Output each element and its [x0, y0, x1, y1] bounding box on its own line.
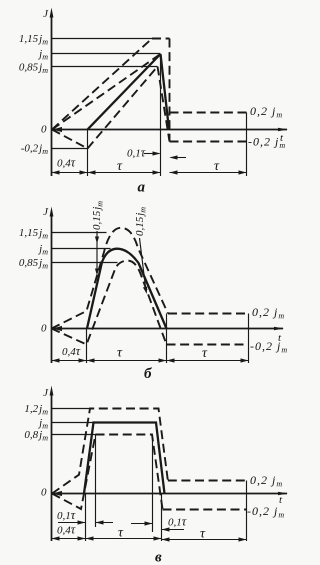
level line jm plot a — [52, 53, 161, 55]
dashed nominal-start ramp plot a — [52, 54, 161, 130]
svg-text:0,1τ: 0,1τ — [168, 515, 187, 529]
extension vertical 0,4tau plot b — [86, 329, 88, 364]
svg-text:0,4τ: 0,4τ — [57, 523, 76, 537]
lower dashed tolerance ramp plot a — [88, 67, 158, 149]
extension vertical 0,4tau plot v — [85, 494, 87, 542]
svg-text:0,2 jm: 0,2 jm — [252, 305, 285, 321]
svg-text:0,4τ: 0,4τ — [62, 344, 81, 358]
inner dashed pulse plot v — [52, 435, 163, 510]
svg-text:t: t — [279, 494, 283, 506]
y-axis plot b — [51, 213, 53, 363]
origin arrowhead plot b — [53, 326, 63, 331]
svg-text:б: б — [144, 366, 152, 382]
PLOT V : rectangular pulse with tolerance bands — [24, 386, 288, 565]
upper dashed top plot a — [152, 38, 170, 40]
svg-text:в: в — [155, 550, 162, 565]
right dashed 0,2jm plot b — [168, 313, 246, 315]
svg-text:jm: jm — [37, 243, 48, 257]
right dashed 0,2jm plot v — [168, 480, 246, 482]
solid nominal bell plot b — [87, 249, 167, 329]
origin arrowhead plot v — [53, 491, 63, 496]
svg-text:τ: τ — [117, 346, 123, 361]
PLOT B : bell waveform with tolerance bands — [19, 201, 288, 382]
svg-text:0,85jm: 0,85jm — [19, 257, 48, 271]
y-axis plot v — [51, 392, 53, 541]
svg-text:J: J — [43, 206, 49, 218]
-0,2jm mark horizontal plot a — [52, 148, 88, 150]
t-axis plot v — [52, 493, 288, 495]
extension vertical right plot v — [246, 481, 248, 542]
svg-text:jm: jm — [37, 48, 48, 62]
svg-text:0,2 jm: 0,2 jm — [250, 473, 283, 489]
svg-text:-0,2jm: -0,2jm — [21, 143, 48, 157]
svg-text:J: J — [43, 8, 49, 20]
y-axis plot a — [51, 15, 53, 176]
lower dashed fall plot a — [158, 67, 170, 142]
leader arrow left plot b — [96, 231, 98, 272]
upper dashed vertical fall plot a — [169, 39, 171, 142]
dimension line row plot v — [52, 538, 162, 540]
level line jm plot v — [52, 422, 94, 424]
svg-text:τ: τ — [214, 159, 220, 174]
lower dashed wedge plot b — [52, 261, 167, 345]
right dashed -0,2jm plot b — [167, 344, 249, 346]
svg-text:0,15jm: 0,15jm — [134, 207, 148, 236]
extension vertical rise-top plot v — [95, 435, 97, 528]
svg-text:J: J — [43, 387, 49, 399]
svg-text:1,15jm: 1,15jm — [19, 33, 48, 47]
level line 1,15jm plot a — [52, 38, 153, 40]
extension vertical right plot b — [248, 314, 250, 364]
extension vertical fall-bottom plot v — [161, 494, 163, 542]
extension vertical fall plot b — [166, 314, 168, 364]
svg-text:0: 0 — [41, 487, 47, 499]
extension vertical right plot a — [246, 113, 248, 177]
svg-text:1,15jm: 1,15jm — [19, 227, 48, 241]
right dashed 0,2jm plot a — [170, 112, 247, 114]
dimension line row plot b — [52, 360, 249, 362]
right dashed -0,2jm plot a — [170, 141, 249, 143]
leader arrow right plot b — [140, 238, 147, 291]
dashed lower wedge plot a — [52, 130, 88, 149]
svg-text:0,85jm: 0,85jm — [19, 62, 48, 76]
PLOT A : sawtooth waveform with tolerance bands — [19, 8, 288, 196]
upper dashed tolerance ramp plot a — [52, 39, 152, 130]
svg-text:1,2jm: 1,2jm — [24, 403, 48, 417]
level line 1,2jm plot v — [52, 408, 90, 410]
level line jm plot b — [52, 248, 111, 250]
svg-text:τ: τ — [117, 159, 123, 174]
t-axis plot b — [52, 328, 284, 330]
0,1tau arrows plot a — [144, 153, 160, 155]
outer dashed pulse plot v — [52, 409, 168, 494]
solid nominal ramp plot a — [88, 54, 161, 130]
solid pulse plot v — [84, 423, 165, 494]
svg-text:0,1τ: 0,1τ — [127, 146, 146, 160]
level line 1,15jm plot b — [52, 232, 107, 234]
level line 0,85jm plot a — [52, 66, 158, 68]
svg-text:-0,2 jm: -0,2 jm — [247, 504, 285, 520]
right dashed -0,2jm plot v — [163, 509, 248, 511]
svg-text:0,4τ: 0,4τ — [57, 156, 76, 170]
svg-text:0,8jm: 0,8jm — [24, 429, 48, 443]
upper dashed bell plot b — [52, 228, 169, 329]
svg-text:-0,2 jm: -0,2 jm — [250, 339, 288, 355]
svg-text:0: 0 — [41, 323, 47, 335]
svg-text:0,15jm: 0,15jm — [91, 201, 105, 230]
extension vertical fall-top plot v — [152, 436, 154, 532]
dimension line row plot a — [52, 172, 161, 174]
t-axis plot a — [52, 129, 288, 131]
svg-text:0,1τ: 0,1τ — [57, 508, 76, 522]
0,1tau left arrows plot v — [58, 522, 85, 524]
level line 0,85jm plot b — [52, 262, 118, 264]
guide vertical at peak plot a — [160, 54, 162, 176]
svg-text:0: 0 — [41, 124, 47, 136]
origin arrowhead plot a — [53, 127, 63, 132]
level line 0,8jm plot v — [52, 434, 96, 436]
svg-text:τ: τ — [202, 346, 208, 361]
extension vertical 0,4tau plot a — [87, 130, 89, 177]
solid flyback plot a — [161, 54, 170, 130]
svg-text:а: а — [138, 180, 146, 196]
svg-text:0,2 jm: 0,2 jm — [250, 104, 283, 120]
0,1tau right arrows plot v — [131, 523, 152, 525]
